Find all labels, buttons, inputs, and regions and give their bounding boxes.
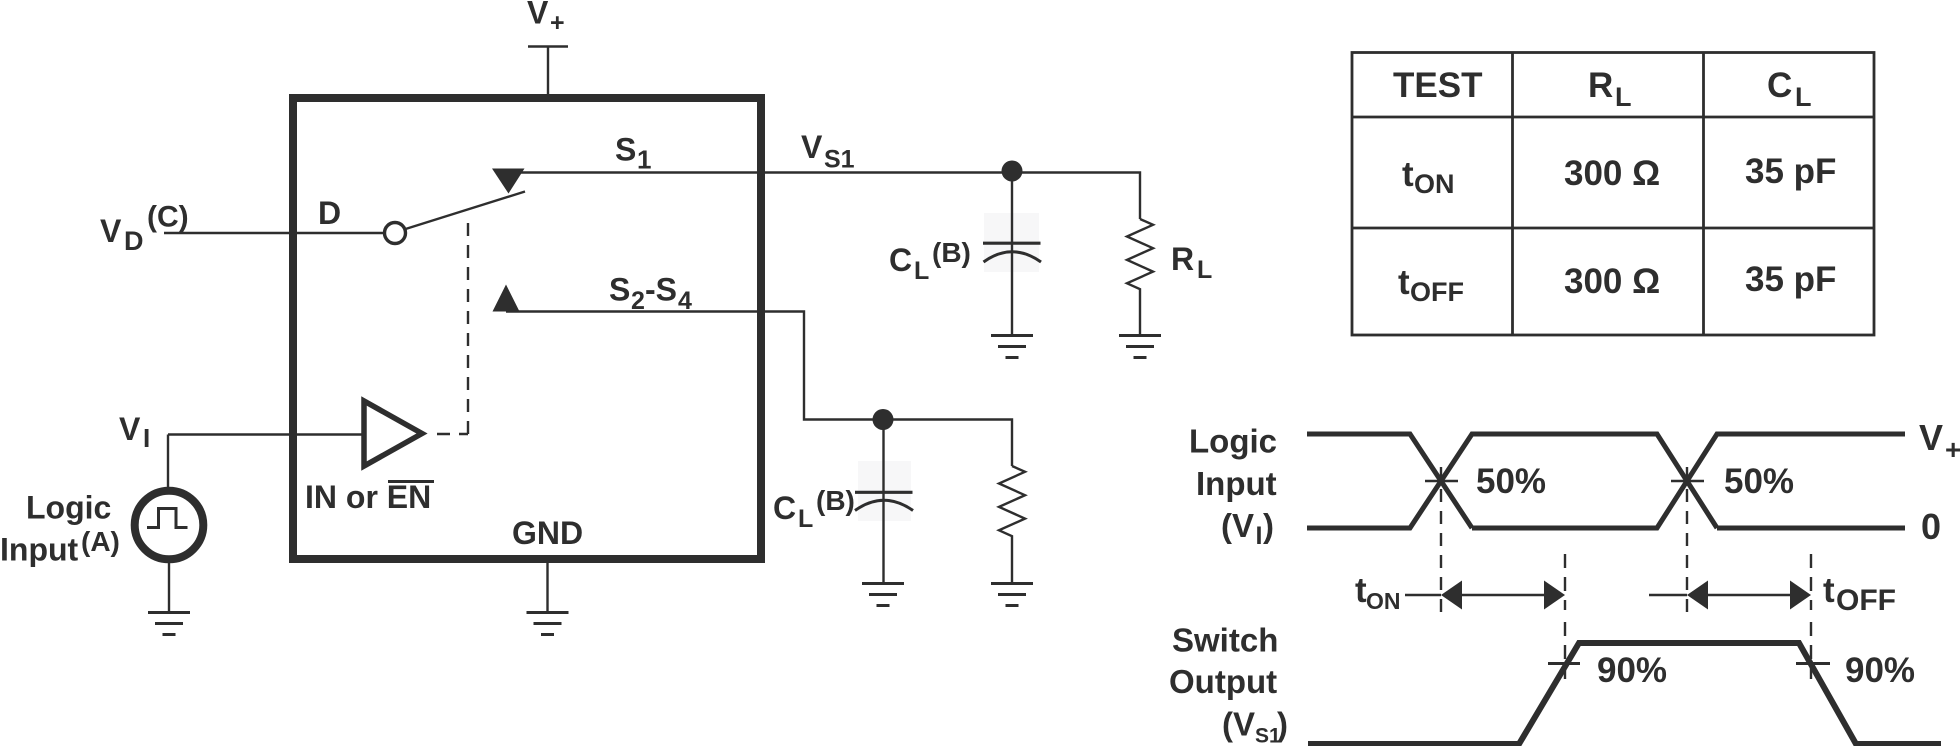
timing: tOFF arrow tail <box>1649 594 1687 596</box>
svg-text:4: 4 <box>678 287 692 315</box>
svg-text:V: V <box>1919 417 1943 458</box>
capacitor CL upper: curved plate <box>984 252 1042 262</box>
svg-text:L: L <box>1197 256 1212 284</box>
svg-text:(B): (B) <box>816 485 855 516</box>
timing: logic input waveform <box>1307 434 1905 528</box>
svg-text:OFF: OFF <box>1836 584 1896 617</box>
svg-text:Switch: Switch <box>1172 622 1278 659</box>
svg-text:t: t <box>1823 571 1835 610</box>
control dashed line from buffer to switch <box>437 215 468 434</box>
svg-text:+: + <box>550 9 565 37</box>
capacitor CL upper: lead <box>1011 171 1013 335</box>
svg-text:V: V <box>119 411 141 447</box>
svg-text:1: 1 <box>637 145 651 175</box>
pulse glyph <box>147 509 188 528</box>
svg-text:I: I <box>143 423 150 453</box>
wire VI drop to source <box>167 435 169 488</box>
svg-text:(: ( <box>1221 507 1232 544</box>
svg-text:0: 0 <box>1921 506 1941 547</box>
table column divider 1 <box>1511 53 1514 336</box>
ground under CL upper <box>991 336 1033 358</box>
svg-text:Logic: Logic <box>1189 423 1277 460</box>
ground under lower resistor <box>991 584 1033 606</box>
timing: tON arrow line <box>1460 594 1546 596</box>
timing: tOFF arrow line <box>1706 594 1792 596</box>
svg-text:V: V <box>527 0 549 31</box>
svg-text:L: L <box>914 257 929 285</box>
svg-text:Output: Output <box>1169 663 1277 700</box>
svg-text:R: R <box>1171 241 1194 277</box>
wire VD input <box>164 232 385 234</box>
DUT box U1 <box>293 98 761 559</box>
node VS1 junction dot <box>1002 161 1023 182</box>
timing: tOFF right arrowhead <box>1790 581 1811 610</box>
table row divider 1 <box>1352 116 1874 119</box>
svg-text:D: D <box>124 226 144 256</box>
svg-text:C: C <box>889 242 912 278</box>
capacitor CL lower: background tint <box>858 461 911 521</box>
svg-text:): ) <box>1263 507 1274 544</box>
svg-text:I: I <box>1256 522 1263 550</box>
svg-text:(B): (B) <box>932 237 971 268</box>
svg-text:300 Ω: 300 Ω <box>1564 262 1660 301</box>
timing: 50% crossover tick 2 <box>1671 480 1704 482</box>
table row divider 2 <box>1352 227 1874 230</box>
svg-text:): ) <box>1277 706 1288 743</box>
svg-text:90%: 90% <box>1597 651 1667 690</box>
timing: tON right arrowhead <box>1544 581 1565 610</box>
svg-text:S: S <box>609 272 630 308</box>
table column divider 2 <box>1702 53 1705 336</box>
svg-text:35 pF: 35 pF <box>1745 152 1836 191</box>
buffer driver (IN or EN) <box>364 401 422 466</box>
wire source to ground <box>168 563 170 612</box>
svg-text:(: ( <box>1222 706 1233 743</box>
timing: dashed vertical at 90% fall <box>1810 554 1812 679</box>
svg-text:S: S <box>615 132 636 168</box>
timing: tOFF left arrowhead <box>1687 581 1708 610</box>
switch throw contact S1 (triangle) <box>492 169 525 194</box>
svg-text:t: t <box>1402 155 1414 194</box>
svg-text:D: D <box>318 195 341 231</box>
capacitor CL lower: lead <box>882 420 884 584</box>
svg-text:V: V <box>801 129 823 165</box>
capacitor CL lower: curved plate <box>855 500 913 510</box>
svg-text:(A): (A) <box>81 526 120 557</box>
svg-text:TEST: TEST <box>1393 66 1482 105</box>
svg-text:50%: 50% <box>1476 462 1546 501</box>
GND pin wire <box>546 563 548 612</box>
svg-text:Input: Input <box>1196 465 1277 502</box>
ground under CL lower <box>862 584 904 606</box>
svg-text:50%: 50% <box>1724 462 1794 501</box>
capacitor CL upper: background tint <box>984 213 1039 272</box>
svg-text:GND: GND <box>512 515 583 551</box>
svg-text:IN or EN: IN or EN <box>305 479 431 515</box>
ground under GND pin <box>527 613 569 635</box>
svg-text:L: L <box>1795 82 1812 112</box>
timing: 50% crossover tick 1 <box>1425 480 1458 482</box>
timing: dashed vertical at first crossover <box>1440 467 1442 614</box>
overline over EN <box>388 480 434 483</box>
ground under source <box>148 613 190 635</box>
switch arm <box>406 192 526 230</box>
resistor RL <box>1127 219 1153 335</box>
timing: dashed vertical at second crossover <box>1686 467 1688 614</box>
svg-text:C: C <box>1767 66 1792 105</box>
timing: 90% tick on fall <box>1796 662 1830 665</box>
wire S2-S4 output <box>506 312 1012 467</box>
svg-text:ON: ON <box>1414 169 1455 199</box>
svg-text:C: C <box>773 490 796 526</box>
svg-text:35 pF: 35 pF <box>1745 260 1836 299</box>
svg-text:90%: 90% <box>1845 651 1915 690</box>
V+ supply terminal bar <box>528 45 568 47</box>
svg-text:V: V <box>100 213 122 249</box>
svg-text:V: V <box>1232 507 1254 544</box>
svg-text:2: 2 <box>631 287 645 315</box>
wire V+ to box <box>547 47 549 96</box>
resistor lower (load) <box>999 466 1025 583</box>
svg-text:Logic: Logic <box>26 490 111 526</box>
svg-text:300 Ω: 300 Ω <box>1564 154 1660 193</box>
svg-text:ON: ON <box>1366 588 1401 614</box>
svg-text:R: R <box>1588 66 1613 105</box>
timing: 90% tick on rise <box>1548 662 1580 665</box>
timing: tON left arrowhead <box>1441 581 1462 610</box>
svg-text:Input: Input <box>0 532 79 568</box>
svg-text:+: + <box>1945 434 1960 465</box>
capacitor CL lower: flat plate <box>855 491 913 494</box>
svg-text:V: V <box>1233 706 1255 743</box>
timing: dashed vertical at 90% rise <box>1564 554 1566 679</box>
svg-text:OFF: OFF <box>1410 277 1464 307</box>
svg-text:L: L <box>1615 82 1632 112</box>
wire S1 / VS1 <box>509 173 1140 220</box>
node S2-S4 junction dot <box>873 409 894 430</box>
svg-text:-S: -S <box>645 272 677 308</box>
svg-text:L: L <box>798 505 813 533</box>
capacitor CL upper: flat plate <box>983 242 1041 245</box>
svg-text:S1: S1 <box>824 146 855 174</box>
pulse source (Logic Input) circle <box>135 491 204 560</box>
switch pole circle D <box>385 223 406 244</box>
svg-text:t: t <box>1398 263 1410 302</box>
timing: tON arrow tail <box>1405 594 1441 596</box>
timing: switch output waveform <box>1308 643 1941 744</box>
svg-text:(C): (C) <box>147 201 189 234</box>
test conditions table frame <box>1352 53 1874 336</box>
wire VI <box>168 433 364 435</box>
ground under RL <box>1119 336 1161 358</box>
switch throw contact S2-S4 (triangle) <box>493 285 520 312</box>
